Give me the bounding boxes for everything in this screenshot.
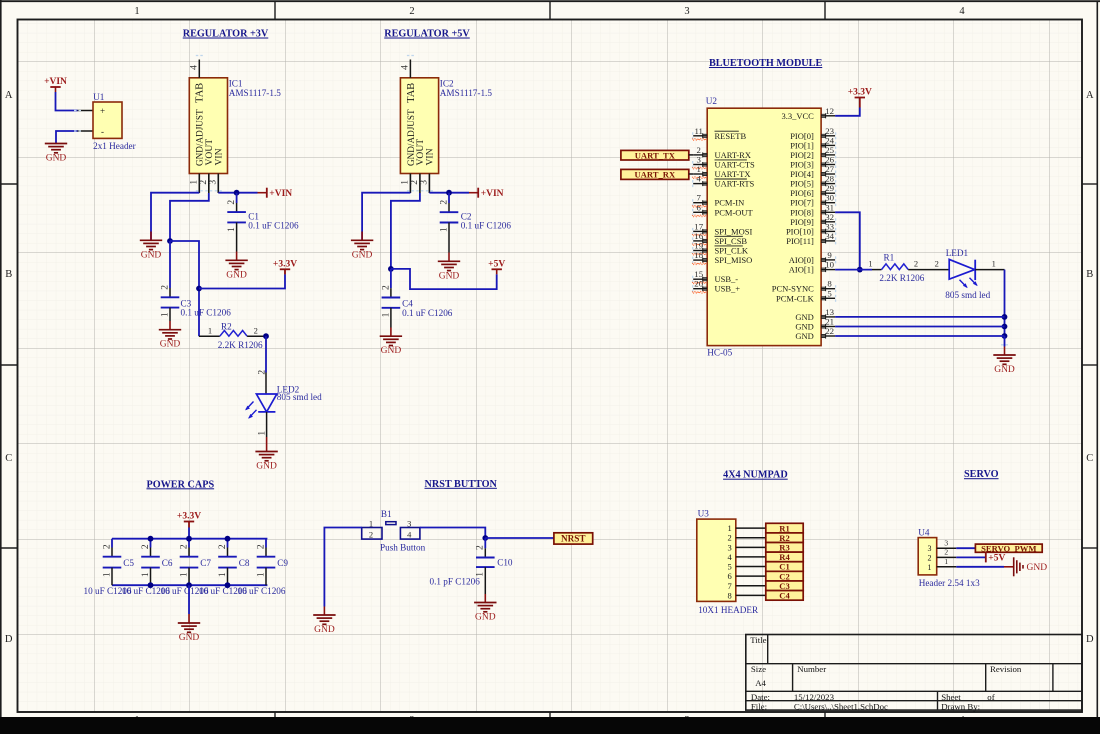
- svg-text:2: 2: [944, 548, 948, 557]
- svg-text:5: 5: [827, 288, 832, 298]
- svg-text:2: 2: [256, 544, 266, 549]
- svg-text:4X4 NUMPAD: 4X4 NUMPAD: [723, 470, 788, 481]
- svg-text:1: 1: [141, 572, 151, 577]
- svg-text:2: 2: [199, 180, 209, 185]
- svg-text:1: 1: [227, 227, 237, 232]
- svg-text:1: 1: [476, 572, 486, 577]
- svg-text:GND: GND: [795, 331, 813, 341]
- svg-text:NRST BUTTON: NRST BUTTON: [425, 479, 498, 490]
- svg-text:7: 7: [696, 193, 701, 203]
- svg-text:GND: GND: [141, 250, 162, 260]
- svg-text:C1: C1: [779, 562, 790, 572]
- svg-text:0.1 uF C1206: 0.1 uF C1206: [181, 308, 232, 318]
- svg-text:HC-05: HC-05: [707, 347, 732, 357]
- svg-text:1: 1: [928, 563, 932, 572]
- svg-text:3: 3: [944, 538, 948, 547]
- svg-text:AIO[1]: AIO[1]: [789, 265, 814, 275]
- svg-text:2.2K R1206: 2.2K R1206: [218, 340, 263, 350]
- svg-text:GND: GND: [160, 340, 181, 350]
- svg-text:GND: GND: [314, 625, 335, 635]
- svg-text:2: 2: [227, 200, 237, 205]
- svg-text:B: B: [5, 269, 12, 280]
- svg-text:AMS1117-1.5: AMS1117-1.5: [229, 88, 282, 98]
- svg-text:3: 3: [684, 6, 689, 17]
- svg-text:13: 13: [825, 307, 834, 317]
- svg-text:D: D: [1086, 634, 1094, 645]
- svg-text:USB_+: USB_+: [715, 284, 741, 294]
- svg-text:1: 1: [179, 572, 189, 577]
- svg-text:29: 29: [825, 183, 834, 193]
- svg-text:22: 22: [825, 326, 834, 336]
- svg-text:PIO[6]: PIO[6]: [790, 188, 814, 198]
- svg-text:R3: R3: [779, 543, 790, 553]
- svg-text:4: 4: [728, 552, 733, 562]
- svg-text:Number: Number: [797, 664, 826, 674]
- svg-text:1: 1: [218, 572, 228, 577]
- svg-text:7: 7: [728, 581, 732, 591]
- svg-text:GND: GND: [226, 270, 247, 280]
- svg-text:2.2K R1206: 2.2K R1206: [879, 273, 924, 283]
- svg-text:3: 3: [696, 155, 701, 165]
- svg-text:U4: U4: [918, 528, 930, 538]
- svg-text:R2: R2: [221, 321, 232, 331]
- svg-text:4: 4: [696, 174, 701, 184]
- svg-text:C4: C4: [779, 591, 790, 601]
- svg-text:SPI_CLK: SPI_CLK: [715, 246, 749, 256]
- svg-text:2: 2: [410, 180, 420, 185]
- svg-text:+VIN: +VIN: [481, 189, 504, 199]
- svg-text:5: 5: [728, 562, 732, 572]
- svg-text:LED1: LED1: [946, 248, 969, 258]
- svg-text:25: 25: [825, 145, 834, 155]
- svg-text:1: 1: [134, 6, 139, 17]
- svg-text:Title: Title: [750, 635, 766, 645]
- svg-text:+: +: [100, 106, 105, 116]
- svg-text:3: 3: [728, 542, 732, 552]
- svg-text:1: 1: [944, 557, 948, 566]
- svg-text:1: 1: [696, 164, 700, 174]
- svg-text:31: 31: [825, 202, 834, 212]
- svg-text:0.1 uF C1206: 0.1 uF C1206: [248, 221, 299, 231]
- svg-text:4: 4: [190, 65, 200, 70]
- svg-text:C6: C6: [162, 558, 173, 568]
- svg-text:PIO[3]: PIO[3]: [790, 160, 814, 170]
- svg-text:GND: GND: [179, 633, 200, 643]
- svg-text:2: 2: [369, 530, 373, 540]
- svg-text:PCM-OUT: PCM-OUT: [715, 207, 754, 217]
- svg-text:+5V: +5V: [488, 260, 505, 270]
- svg-text:+3.3V: +3.3V: [177, 512, 201, 522]
- svg-text:1: 1: [381, 312, 391, 317]
- svg-text:+3.3V: +3.3V: [848, 88, 872, 98]
- svg-text:AIO[0]: AIO[0]: [789, 255, 814, 265]
- svg-text:28: 28: [825, 174, 834, 184]
- svg-text:+VIN: +VIN: [44, 77, 67, 87]
- svg-text:3: 3: [407, 518, 411, 528]
- svg-text:PCN-SYNC: PCN-SYNC: [772, 284, 814, 294]
- svg-text:10X1 HEADER: 10X1 HEADER: [698, 605, 759, 615]
- svg-text:UART-RX: UART-RX: [715, 150, 752, 160]
- svg-text:R1: R1: [884, 253, 895, 263]
- svg-text:C8: C8: [239, 558, 250, 568]
- svg-text:805 smd led: 805 smd led: [945, 290, 990, 300]
- svg-text:PIO[1]: PIO[1]: [790, 140, 814, 150]
- svg-text:26: 26: [825, 155, 834, 165]
- svg-text:15/12/2023: 15/12/2023: [794, 692, 835, 702]
- svg-text:GND: GND: [994, 365, 1015, 375]
- svg-text:USB_-: USB_-: [715, 274, 739, 284]
- svg-text:PCM-CLK: PCM-CLK: [776, 293, 815, 303]
- svg-text:BLUETOOTH MODULE: BLUETOOTH MODULE: [709, 58, 823, 69]
- svg-text:C3: C3: [779, 581, 790, 591]
- svg-text:SERVO_PWM: SERVO_PWM: [981, 543, 1036, 553]
- svg-text:16: 16: [694, 231, 703, 241]
- svg-text:Date:: Date:: [751, 692, 770, 702]
- svg-text:2: 2: [381, 285, 391, 290]
- svg-text:GND: GND: [1027, 563, 1048, 573]
- svg-text:10 uF C1206: 10 uF C1206: [238, 586, 286, 596]
- svg-text:C:\Users\..\Sheet1.SchDoc: C:\Users\..\Sheet1.SchDoc: [794, 701, 888, 711]
- svg-text:C10: C10: [497, 557, 513, 567]
- svg-text:2: 2: [935, 259, 939, 269]
- svg-text:REGULATOR +5V: REGULATOR +5V: [384, 29, 470, 40]
- svg-text:C5: C5: [123, 558, 134, 568]
- svg-text:SERVO: SERVO: [964, 469, 999, 480]
- svg-text:2: 2: [102, 544, 112, 549]
- svg-text:3: 3: [928, 544, 932, 553]
- svg-text:UART_TX: UART_TX: [635, 150, 676, 160]
- svg-text:U1: U1: [93, 92, 105, 102]
- svg-text:GND: GND: [352, 250, 373, 260]
- svg-text:2: 2: [439, 200, 449, 205]
- svg-text:1: 1: [257, 431, 267, 436]
- svg-text:C: C: [5, 453, 12, 464]
- svg-text:GND: GND: [46, 154, 67, 164]
- svg-text:0.1 uF C1206: 0.1 uF C1206: [461, 221, 512, 231]
- svg-text:UART-RTS: UART-RTS: [715, 179, 755, 189]
- svg-text:Drawn By:: Drawn By:: [941, 701, 980, 711]
- svg-text:2: 2: [160, 285, 170, 290]
- svg-text:17: 17: [694, 221, 703, 231]
- svg-text:VIN: VIN: [425, 148, 436, 165]
- svg-text:1: 1: [401, 180, 411, 185]
- svg-text:32: 32: [825, 212, 834, 222]
- svg-text:1: 1: [992, 259, 996, 269]
- svg-text:1: 1: [208, 326, 212, 336]
- svg-text:RESETB: RESETB: [715, 131, 747, 141]
- svg-text:2x1 Header: 2x1 Header: [93, 141, 136, 151]
- svg-text:U3: U3: [698, 508, 710, 518]
- svg-text:TAB: TAB: [406, 83, 417, 103]
- svg-text:4: 4: [959, 6, 965, 17]
- svg-text:PIO[8]: PIO[8]: [790, 207, 814, 217]
- svg-text:C2: C2: [779, 571, 790, 581]
- svg-text:C7: C7: [200, 558, 211, 568]
- svg-text:C: C: [1086, 453, 1093, 464]
- svg-text:6: 6: [696, 202, 701, 212]
- svg-text:21: 21: [825, 317, 834, 327]
- svg-text:U2: U2: [706, 96, 718, 106]
- svg-text:2: 2: [141, 544, 151, 549]
- svg-text:33: 33: [825, 221, 834, 231]
- svg-text:IC2: IC2: [440, 79, 454, 89]
- svg-text:A4: A4: [755, 678, 766, 688]
- svg-text:GND: GND: [475, 613, 496, 623]
- svg-text:30: 30: [825, 193, 834, 203]
- svg-text:PIO[9]: PIO[9]: [790, 217, 814, 227]
- svg-text:IC1: IC1: [229, 79, 243, 89]
- svg-text:2: 2: [928, 553, 932, 562]
- svg-text:10: 10: [825, 260, 834, 270]
- svg-text:1: 1: [190, 180, 200, 185]
- svg-text:POWER CAPS: POWER CAPS: [146, 479, 214, 490]
- svg-text:VIN: VIN: [214, 148, 225, 165]
- svg-text:+VIN: +VIN: [269, 189, 292, 199]
- svg-text:2: 2: [476, 545, 486, 550]
- svg-text:18: 18: [694, 250, 703, 260]
- svg-text:4: 4: [401, 65, 411, 70]
- svg-text:15: 15: [694, 269, 703, 279]
- svg-text:PIO[7]: PIO[7]: [790, 198, 814, 208]
- svg-text:1: 1: [439, 227, 449, 232]
- svg-text:R4: R4: [779, 552, 790, 562]
- svg-text:A: A: [1086, 90, 1094, 101]
- svg-text:27: 27: [825, 164, 834, 174]
- svg-text:23: 23: [825, 126, 834, 136]
- svg-text:UART-TX: UART-TX: [715, 169, 751, 179]
- svg-text:of: of: [987, 692, 994, 702]
- svg-text:1: 1: [728, 523, 732, 533]
- svg-text:B1: B1: [381, 509, 392, 519]
- svg-text:2: 2: [728, 533, 732, 543]
- svg-text:Size: Size: [751, 664, 766, 674]
- svg-text:8: 8: [827, 279, 832, 289]
- svg-text:SPI_CSB: SPI_CSB: [715, 236, 748, 246]
- svg-text:1: 1: [868, 259, 872, 269]
- svg-text:2: 2: [254, 326, 258, 336]
- svg-text:2: 2: [257, 370, 267, 375]
- svg-text:1: 1: [256, 572, 266, 577]
- svg-text:34: 34: [825, 231, 834, 241]
- svg-text:GND: GND: [381, 346, 402, 356]
- svg-text:AMS1117-1.5: AMS1117-1.5: [440, 88, 493, 98]
- svg-text:GND: GND: [795, 312, 813, 322]
- svg-text:UART-CTS: UART-CTS: [715, 160, 756, 170]
- svg-text:R1: R1: [779, 523, 790, 533]
- svg-text:Push Button: Push Button: [380, 543, 426, 553]
- svg-text:3.3_VCC: 3.3_VCC: [781, 111, 814, 121]
- svg-text:GND: GND: [256, 462, 277, 472]
- svg-text:C9: C9: [277, 558, 288, 568]
- svg-text:PIO[5]: PIO[5]: [790, 179, 814, 189]
- svg-text:A: A: [5, 90, 13, 101]
- svg-text:24: 24: [825, 135, 834, 145]
- svg-text:9: 9: [827, 250, 832, 260]
- svg-text:2: 2: [179, 544, 189, 549]
- svg-text:0.1 uF C1206: 0.1 uF C1206: [402, 308, 453, 318]
- svg-text:Sheet: Sheet: [941, 692, 961, 702]
- svg-text:1: 1: [369, 518, 373, 528]
- svg-text:2: 2: [409, 6, 414, 17]
- svg-text:File:: File:: [751, 701, 767, 711]
- svg-text:SPI_MISO: SPI_MISO: [715, 255, 753, 265]
- svg-text:Revision: Revision: [990, 664, 1022, 674]
- svg-text:12: 12: [825, 106, 834, 116]
- svg-text:-: -: [101, 127, 104, 137]
- svg-text:PIO[2]: PIO[2]: [790, 150, 814, 160]
- svg-text:Header 2.54 1x3: Header 2.54 1x3: [919, 578, 980, 588]
- svg-text:NRST: NRST: [561, 534, 586, 544]
- svg-text:1: 1: [102, 572, 112, 577]
- svg-text:0.1 pF C1206: 0.1 pF C1206: [430, 576, 481, 586]
- svg-text:SPI_MOSI: SPI_MOSI: [715, 226, 753, 236]
- svg-text:D: D: [5, 634, 13, 645]
- svg-text:GND: GND: [439, 271, 460, 281]
- svg-text:3: 3: [420, 180, 430, 185]
- svg-text:8: 8: [728, 590, 732, 600]
- svg-text:PIO[11]: PIO[11]: [786, 236, 814, 246]
- svg-text:4: 4: [407, 530, 412, 540]
- svg-text:1: 1: [160, 312, 170, 317]
- svg-text:2: 2: [914, 259, 918, 269]
- svg-text:B: B: [1086, 269, 1093, 280]
- svg-text:R2: R2: [779, 533, 790, 543]
- svg-text:6: 6: [728, 571, 732, 581]
- svg-text:3: 3: [209, 180, 219, 185]
- svg-text:11: 11: [694, 126, 702, 136]
- svg-text:19: 19: [694, 241, 703, 251]
- svg-text:UART_RX: UART_RX: [634, 170, 676, 180]
- svg-text:PIO[4]: PIO[4]: [790, 169, 814, 179]
- svg-text:PCM-IN: PCM-IN: [715, 198, 745, 208]
- svg-text:+5V: +5V: [988, 554, 1005, 564]
- svg-text:805 smd led: 805 smd led: [277, 392, 322, 402]
- svg-text:PIO[0]: PIO[0]: [790, 131, 814, 141]
- svg-text:+3.3V: +3.3V: [273, 260, 297, 270]
- svg-text:2: 2: [218, 544, 228, 549]
- svg-text:REGULATOR +3V: REGULATOR +3V: [183, 29, 269, 40]
- svg-text:2: 2: [696, 145, 700, 155]
- svg-text:PIO[10]: PIO[10]: [786, 226, 814, 236]
- svg-text:TAB: TAB: [195, 83, 206, 103]
- svg-text:GND: GND: [795, 322, 813, 332]
- svg-text:20: 20: [694, 279, 703, 289]
